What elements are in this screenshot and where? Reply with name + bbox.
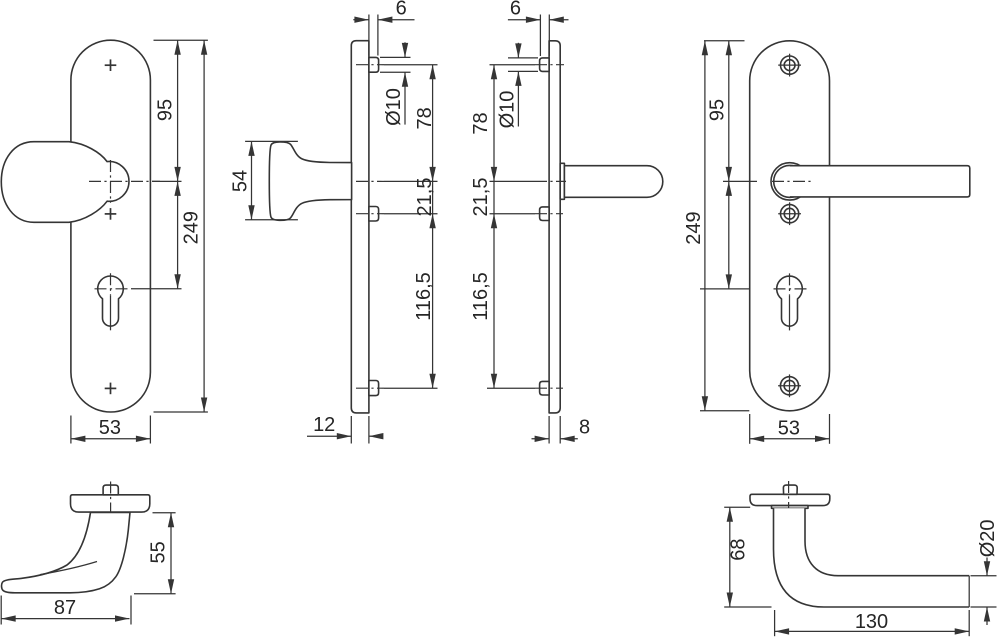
lever spindle top view xyxy=(783,485,797,494)
screw below lever view4 xyxy=(781,205,799,223)
dimension 68 xyxy=(724,506,750,508)
svg-text:130: 130 xyxy=(855,611,888,633)
dimension diameter 20 xyxy=(971,575,997,577)
plate bar profile view2 xyxy=(351,41,369,413)
backplate 1 outline xyxy=(71,40,150,412)
lever spindle centerline xyxy=(788,481,790,515)
svg-text:55: 55 xyxy=(147,541,169,563)
knob flange xyxy=(71,495,150,512)
svg-text:249: 249 xyxy=(181,211,203,244)
dimension diameter 10 view2 xyxy=(380,56,411,58)
dimension 6 view3 xyxy=(539,15,541,57)
dimension 130 xyxy=(774,610,776,636)
euro cylinder hole view4 xyxy=(777,276,803,326)
svg-text:Ø10: Ø10 xyxy=(383,88,405,126)
dimension 116,5 view2 xyxy=(432,214,434,389)
fixing post middle view2 xyxy=(369,207,379,222)
centerline middle post view3 xyxy=(490,213,536,215)
fixing post top view3 xyxy=(540,58,550,72)
dimension 249 view4 xyxy=(700,410,749,412)
dimension center-to-cylinder view1 xyxy=(131,288,182,290)
knob body crease line xyxy=(40,562,97,575)
fixing post top view2 xyxy=(369,57,379,72)
screw mark top + xyxy=(105,64,117,66)
svg-text:53: 53 xyxy=(778,417,800,439)
svg-text:54: 54 xyxy=(230,170,252,192)
dimension 8 view3 xyxy=(548,416,550,444)
lever tube end xyxy=(968,576,970,607)
lever boss inner circle xyxy=(774,165,806,197)
centerline top post view2 xyxy=(356,64,384,66)
dimension 78 view2 xyxy=(432,65,434,182)
svg-text:6: 6 xyxy=(396,0,407,20)
screw mark middle + xyxy=(105,213,117,215)
svg-text:53: 53 xyxy=(99,417,121,439)
svg-text:116,5: 116,5 xyxy=(413,272,435,321)
dimension diameter 10 view3 xyxy=(508,57,538,59)
centerline middle post view2 xyxy=(356,213,384,215)
centerline bottom post view2 xyxy=(356,387,384,389)
lever centerline view4 xyxy=(772,180,812,182)
svg-text:87: 87 xyxy=(54,597,76,619)
dimension 21,5 view3 xyxy=(493,181,495,213)
svg-text:95: 95 xyxy=(154,99,176,121)
fixing post bottom view2 xyxy=(369,381,379,396)
lever spindle collar view3 xyxy=(560,163,564,199)
dimension 54 view2 xyxy=(245,140,298,142)
knob spindle xyxy=(103,485,118,495)
svg-text:78: 78 xyxy=(470,112,492,134)
svg-text:21,5: 21,5 xyxy=(414,178,436,217)
backplate 4 outline xyxy=(750,41,830,411)
dimension 6 view2 xyxy=(368,15,370,56)
dimension 12 view2 xyxy=(350,416,352,444)
dimension 55 xyxy=(153,512,176,514)
fixing post bottom view3 xyxy=(540,381,550,395)
dimension 95 view1 xyxy=(154,39,208,41)
dimension 78 view3 xyxy=(493,65,495,182)
euro cylinder hole view1 xyxy=(98,276,124,326)
lever bar view4 xyxy=(790,166,970,197)
knob front blob xyxy=(1,142,129,223)
lever flange xyxy=(750,494,830,505)
dimension center-to-cylinder view4 xyxy=(700,288,749,290)
svg-text:Ø10: Ø10 xyxy=(496,91,518,129)
svg-text:6: 6 xyxy=(510,0,521,20)
svg-text:249: 249 xyxy=(683,211,705,244)
svg-text:78: 78 xyxy=(414,107,436,129)
svg-text:68: 68 xyxy=(727,538,749,560)
svg-text:95: 95 xyxy=(706,99,728,121)
centerline top post view3 xyxy=(490,64,536,66)
screw mark bottom + xyxy=(105,387,117,389)
centerline lever view3 xyxy=(490,180,536,182)
dimension 249 view1 xyxy=(154,411,208,413)
knob centerline horizontal xyxy=(89,180,160,182)
lever boss outer circle xyxy=(771,163,808,200)
centerline bottom post view3 xyxy=(487,387,535,389)
centerline knob view2 xyxy=(356,180,384,182)
lever neck collar xyxy=(772,506,809,509)
dimension 21,5 view2 xyxy=(432,181,434,213)
dimension 116,5 view3 xyxy=(493,214,495,389)
knob side profile xyxy=(269,142,351,220)
plate bar profile view3 xyxy=(549,41,560,413)
fixing post middle view3 xyxy=(540,207,550,221)
lever tube outline xyxy=(774,508,970,607)
lever grip side view3 xyxy=(564,166,662,198)
knob body profile xyxy=(2,512,130,592)
dimension 53 view1 xyxy=(70,416,72,444)
svg-text:8: 8 xyxy=(579,416,590,438)
dimension 87 xyxy=(0,596,2,625)
knob spindle centerline xyxy=(110,482,112,515)
svg-text:116,5: 116,5 xyxy=(470,272,492,321)
screw top view4 xyxy=(781,56,799,74)
dimension 53 view4 xyxy=(749,414,751,444)
svg-text:12: 12 xyxy=(313,414,335,436)
svg-text:21,5: 21,5 xyxy=(470,178,492,217)
svg-text:Ø20: Ø20 xyxy=(977,519,999,557)
screw bottom view4 xyxy=(780,377,798,395)
knob centerline vertical xyxy=(110,160,112,203)
dimension 95 view4 xyxy=(704,40,745,42)
